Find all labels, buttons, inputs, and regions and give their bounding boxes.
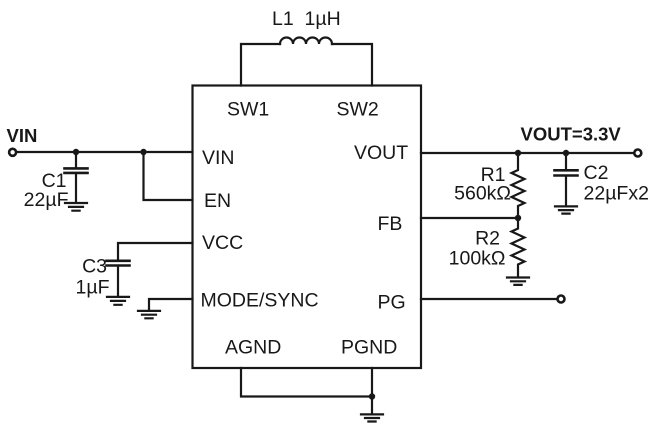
capacitor C1 stem top <box>75 152 77 167</box>
svg-text:VOUT: VOUT <box>354 142 408 164</box>
svg-text:C3: C3 <box>82 256 107 278</box>
svg-text:EN: EN <box>204 190 231 212</box>
wire VOUT net <box>421 152 635 154</box>
svg-text:VOUT=3.3V: VOUT=3.3V <box>521 124 622 145</box>
wire AGND riser <box>241 368 372 397</box>
ground PGND <box>361 414 383 421</box>
svg-text:L1 1µH: L1 1µH <box>272 8 341 30</box>
svg-text:AGND: AGND <box>225 337 281 359</box>
svg-text:VCC: VCC <box>202 232 243 254</box>
capacitor C3 plates <box>107 261 130 266</box>
wire EN jog <box>144 152 193 200</box>
node junction VOUT-C2 <box>563 150 569 156</box>
capacitor C2 plates <box>555 170 578 175</box>
wire PGND riser <box>371 368 373 413</box>
capacitor C2 stem top <box>565 153 567 169</box>
ground C3 <box>107 297 129 305</box>
ground C1 <box>65 203 87 211</box>
wire PG net <box>421 298 558 300</box>
svg-text:FB: FB <box>378 213 403 235</box>
wire VIN net <box>16 151 193 153</box>
node junction AGND-PGND <box>369 393 375 399</box>
resistor R1 <box>512 153 525 218</box>
wire FB net <box>421 217 518 219</box>
inductor L1 <box>280 38 332 45</box>
svg-text:MODE/SYNC: MODE/SYNC <box>201 290 319 312</box>
svg-text:VIN: VIN <box>202 147 235 169</box>
capacitor C1 plates <box>65 168 88 173</box>
ground R2 <box>507 278 529 285</box>
svg-text:PG: PG <box>378 292 406 314</box>
svg-text:560kΩ: 560kΩ <box>454 183 511 205</box>
capacitor C2 stem bottom <box>565 177 567 206</box>
node junction VIN-C1 <box>73 149 79 155</box>
wire SW2 riser <box>332 44 372 86</box>
wire VCC net <box>118 243 193 260</box>
svg-text:1µF: 1µF <box>76 277 110 299</box>
svg-text:22µFx2: 22µFx2 <box>584 183 649 205</box>
terminal VIN <box>9 149 16 156</box>
ground C2 <box>555 206 577 213</box>
svg-text:100kΩ: 100kΩ <box>449 248 506 270</box>
svg-text:SW1: SW1 <box>227 99 269 121</box>
node junction VIN-EN <box>140 149 146 155</box>
svg-text:22µF: 22µF <box>24 189 69 211</box>
resistor R2 <box>512 218 525 276</box>
wire SW1 riser <box>241 44 280 86</box>
svg-text:SW2: SW2 <box>337 99 379 121</box>
svg-text:C2: C2 <box>584 162 609 184</box>
svg-text:PGND: PGND <box>341 337 397 359</box>
node junction VOUT-R1 <box>515 150 521 156</box>
terminal PG <box>558 296 565 303</box>
IC U1 body <box>193 86 422 369</box>
svg-text:VIN: VIN <box>7 125 38 146</box>
terminal VOUT <box>634 150 641 157</box>
wire MODE/SYNC net <box>149 299 193 310</box>
capacitor C3 stem bottom <box>117 267 119 296</box>
ground MODE/SYNC <box>138 311 160 318</box>
svg-text:R2: R2 <box>475 228 500 250</box>
node junction FB-R1-R2 <box>515 215 521 221</box>
capacitor C1 stem bottom <box>75 174 77 202</box>
